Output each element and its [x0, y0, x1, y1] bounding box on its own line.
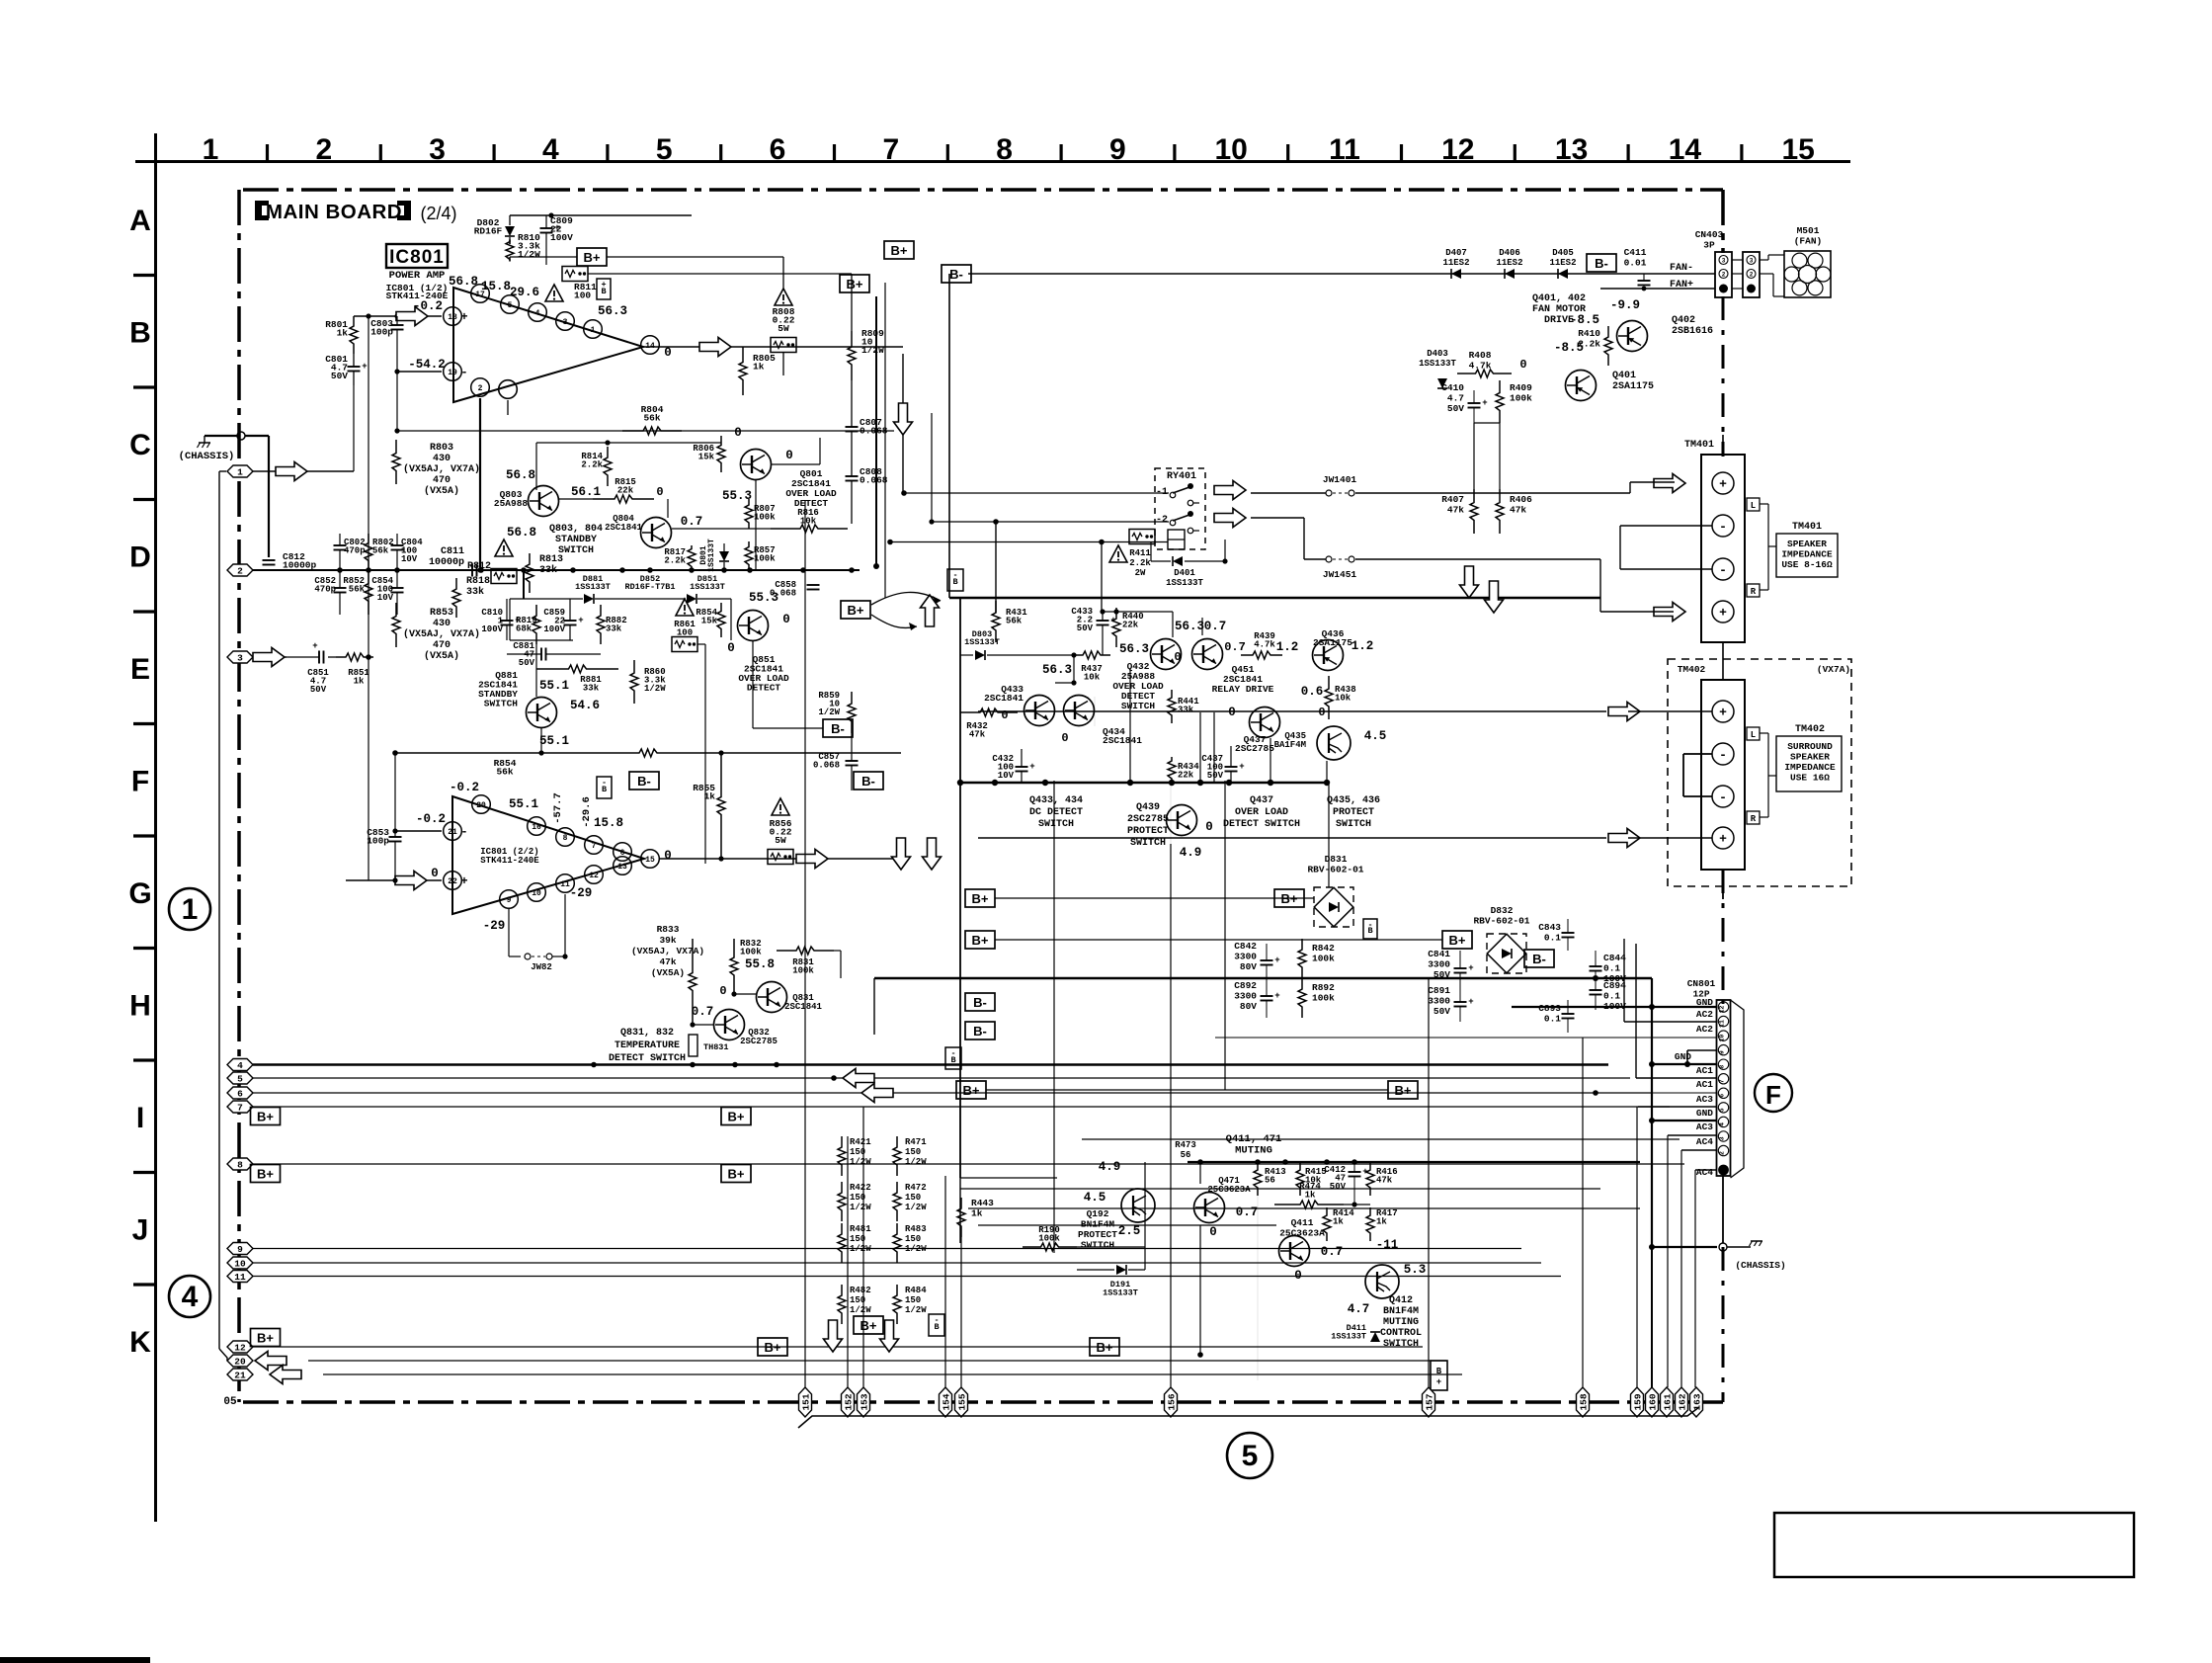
- svg-text:1/2W: 1/2W: [644, 684, 666, 694]
- circled 4: [169, 1276, 210, 1317]
- svg-text:8: 8: [563, 834, 568, 843]
- svg-text:AC4: AC4: [1696, 1167, 1713, 1178]
- relay out arrows: [1214, 481, 1246, 500]
- top ruler line: [135, 160, 1850, 163]
- svg-text:33k: 33k: [606, 624, 622, 634]
- R411 warn: [1109, 545, 1127, 562]
- svg-text:154: 154: [941, 1393, 951, 1410]
- svg-text:C842: C842: [1234, 941, 1257, 952]
- svg-text:PROTECT: PROTECT: [1127, 826, 1169, 837]
- svg-text:-: -: [1719, 563, 1727, 578]
- svg-text:0: 0: [656, 485, 663, 499]
- svg-text:2: 2: [1722, 272, 1726, 279]
- heavy bus row H: [874, 977, 1652, 980]
- wire to pin 21: [395, 830, 442, 832]
- svg-text:151: 151: [800, 1393, 811, 1410]
- svg-text:5W: 5W: [778, 323, 789, 334]
- svg-text:SWITCH: SWITCH: [1130, 838, 1166, 849]
- svg-text:1/2W: 1/2W: [518, 249, 540, 260]
- svg-text:Q412: Q412: [1389, 1295, 1413, 1306]
- svg-text:DETECT: DETECT: [747, 683, 781, 694]
- svg-text:+: +: [1274, 991, 1279, 1001]
- svg-text:22k: 22k: [617, 486, 634, 496]
- R440: [1115, 608, 1117, 617]
- wires TM401 minus: [1620, 525, 1712, 527]
- svg-text:IMPEDANCE: IMPEDANCE: [1781, 549, 1833, 560]
- svg-text:33k: 33k: [1178, 706, 1194, 715]
- svg-text:-: -: [934, 1315, 939, 1325]
- svg-text:J: J: [132, 1214, 149, 1247]
- svg-text:SWITCH: SWITCH: [558, 545, 594, 556]
- svg-text:6: 6: [770, 133, 786, 166]
- svg-text:POWER AMP: POWER AMP: [389, 270, 446, 282]
- svg-text:1k: 1k: [1305, 1191, 1316, 1201]
- svg-text:47k: 47k: [1510, 505, 1526, 516]
- svg-text:OVER LOAD: OVER LOAD: [1235, 807, 1288, 818]
- svg-text:15.8: 15.8: [481, 280, 511, 293]
- svg-text:2.2k: 2.2k: [664, 556, 686, 566]
- R818 R854: [455, 578, 457, 587]
- svg-text:159: 159: [1632, 1393, 1643, 1410]
- svg-text:CONTROL: CONTROL: [1380, 1328, 1422, 1339]
- svg-text:+: +: [601, 280, 606, 290]
- svg-text:80V: 80V: [1240, 961, 1257, 972]
- svg-text:56k: 56k: [349, 585, 366, 595]
- svg-text:Q401, 402: Q401, 402: [1532, 293, 1586, 304]
- R409: [1499, 380, 1501, 391]
- svg-text:+: +: [1468, 963, 1473, 973]
- svg-text:C894: C894: [1603, 980, 1626, 991]
- svg-text:25C3623A: 25C3623A: [1279, 1228, 1325, 1239]
- protect block outline: [949, 597, 1600, 599]
- svg-text:TM402: TM402: [1795, 724, 1825, 735]
- svg-text:0.1: 0.1: [1544, 933, 1561, 944]
- svg-text:R481: R481: [850, 1224, 871, 1234]
- svg-text:1SS133T: 1SS133T: [1419, 359, 1456, 369]
- svg-text:M501: M501: [1797, 225, 1820, 236]
- wires TM402: [978, 710, 1606, 712]
- svg-text:0.7: 0.7: [1236, 1206, 1259, 1219]
- svg-text:55.3: 55.3: [749, 591, 778, 605]
- svg-text:-: -: [602, 778, 607, 788]
- svg-text:157: 157: [1424, 1393, 1434, 1410]
- svg-text:3300: 3300: [1428, 996, 1450, 1007]
- svg-text:15k: 15k: [701, 617, 718, 626]
- svg-text:4: 4: [182, 1281, 199, 1313]
- R410: [1607, 326, 1609, 335]
- svg-text:D405: D405: [1552, 248, 1574, 258]
- relay contacts: [1170, 492, 1176, 498]
- resistor ladder: [841, 1136, 843, 1145]
- amp2 out wire: [660, 858, 903, 860]
- svg-text:R842: R842: [1312, 943, 1335, 954]
- main board border top: [243, 188, 1723, 192]
- svg-text:3: 3: [237, 652, 243, 663]
- dots on GND line: [591, 1062, 597, 1068]
- border right vertical col14 segments: [1721, 190, 1725, 253]
- svg-text:50V: 50V: [1330, 1182, 1347, 1192]
- circled 5: [1227, 1433, 1272, 1478]
- svg-text:0: 0: [1318, 706, 1325, 719]
- svg-text:CN801: CN801: [1687, 978, 1716, 989]
- svg-text:55.1: 55.1: [539, 679, 569, 693]
- svg-text:1: 1: [237, 466, 243, 477]
- B+ rail line: [510, 256, 577, 258]
- svg-text:TM402: TM402: [1678, 664, 1706, 675]
- svg-text:0: 0: [727, 641, 735, 655]
- svg-text:RBV-602-01: RBV-602-01: [1473, 916, 1529, 927]
- svg-text:+: +: [1719, 606, 1727, 621]
- rotated B-: [945, 1047, 961, 1069]
- svg-text:Q437: Q437: [1250, 795, 1273, 806]
- svg-text:1: 1: [591, 326, 596, 335]
- svg-text:JW82: JW82: [531, 962, 552, 972]
- svg-text:4.9: 4.9: [1180, 846, 1202, 860]
- Q433 Q434: [1024, 696, 1055, 726]
- svg-text:-29: -29: [483, 919, 506, 933]
- svg-text:0.01: 0.01: [1624, 258, 1647, 269]
- feedback wire: [396, 372, 398, 431]
- svg-text:SURROUND: SURROUND: [1787, 741, 1833, 752]
- svg-text:D407: D407: [1445, 248, 1467, 258]
- svg-text:470: 470: [433, 475, 451, 486]
- svg-text:RD16F-T7B1: RD16F-T7B1: [624, 582, 675, 592]
- svg-text:DETECT SWITCH: DETECT SWITCH: [609, 1053, 686, 1064]
- amp1 out to relay verticals: [902, 354, 904, 493]
- capacitor C811: [471, 564, 473, 577]
- svg-text:7: 7: [882, 133, 899, 166]
- transistor Q851: [738, 611, 769, 641]
- svg-text:Q435, 436: Q435, 436: [1327, 795, 1380, 806]
- svg-text:11ES2: 11ES2: [1442, 258, 1469, 268]
- transistor Q801: [741, 450, 772, 480]
- svg-text:9: 9: [1719, 1050, 1726, 1054]
- TM401 stem: [1722, 435, 1724, 455]
- svg-text:TM401: TM401: [1792, 522, 1822, 533]
- svg-text:11ES2: 11ES2: [1496, 258, 1522, 268]
- svg-text:RY401: RY401: [1167, 471, 1196, 482]
- svg-text:0.7: 0.7: [681, 515, 703, 529]
- svg-text:USE 8-16Ω: USE 8-16Ω: [1781, 559, 1833, 570]
- svg-text:47k: 47k: [1376, 1176, 1393, 1186]
- transistor Q451: [1192, 639, 1223, 670]
- svg-text:1: 1: [182, 893, 199, 926]
- svg-text:25A988: 25A988: [494, 498, 529, 509]
- page bottom-left black bar: [0, 1657, 150, 1663]
- C857: [846, 760, 859, 762]
- svg-text:2SC1841: 2SC1841: [984, 693, 1024, 704]
- JW connect: [1251, 492, 1326, 494]
- svg-text:50V: 50V: [1077, 624, 1094, 633]
- svg-text:2SC1841: 2SC1841: [1103, 735, 1142, 746]
- svg-text:2W: 2W: [1135, 568, 1146, 578]
- svg-text:0: 0: [1001, 708, 1008, 722]
- B- boxes mid: [629, 772, 659, 790]
- svg-text:5: 5: [1719, 1108, 1726, 1112]
- R881: [536, 668, 567, 670]
- svg-text:0.1: 0.1: [1544, 1014, 1561, 1025]
- fan wires left: [1643, 288, 1645, 291]
- caps row upper C802 R802 C804: [334, 544, 347, 546]
- svg-text:56k: 56k: [496, 767, 513, 778]
- svg-text:SWITCH: SWITCH: [1336, 819, 1371, 830]
- svg-text:0.068: 0.068: [813, 761, 840, 771]
- svg-text:MUTING: MUTING: [1383, 1317, 1419, 1328]
- svg-text:C: C: [129, 429, 151, 461]
- svg-text:SPEAKER: SPEAKER: [1790, 752, 1830, 763]
- svg-text:-: -: [1719, 748, 1727, 763]
- svg-text:10V: 10V: [998, 771, 1015, 781]
- B+ mid row I: [721, 1108, 751, 1125]
- svg-text:D832: D832: [1491, 905, 1514, 916]
- svg-text:100p: 100p: [370, 327, 393, 338]
- resistor R801: [353, 316, 355, 324]
- svg-text:20: 20: [234, 1356, 246, 1367]
- svg-text:15: 15: [645, 856, 655, 865]
- svg-text:9: 9: [1109, 133, 1126, 166]
- R437: [1073, 654, 1081, 656]
- svg-text:R892: R892: [1312, 982, 1335, 993]
- svg-text:0.6: 0.6: [1301, 685, 1324, 699]
- svg-text:56k: 56k: [1006, 617, 1023, 626]
- wire pin19: [397, 371, 442, 373]
- svg-text:2SB1616: 2SB1616: [1672, 326, 1713, 337]
- svg-text:BN1F4M: BN1F4M: [1081, 1219, 1115, 1230]
- svg-text:4.7: 4.7: [1447, 393, 1464, 404]
- resistor R805: [742, 347, 744, 361]
- TM402 minus link: [1683, 753, 1712, 755]
- svg-text:0: 0: [1228, 706, 1236, 719]
- svg-text:3P: 3P: [1703, 240, 1715, 251]
- svg-text:(CHASSIS): (CHASSIS): [1735, 1260, 1785, 1271]
- svg-text:+: +: [554, 223, 559, 233]
- relay feed lines: [1629, 482, 1631, 493]
- svg-text:-: -: [950, 1048, 955, 1058]
- F circle: [1755, 1074, 1792, 1112]
- verticals from bottom pins: [804, 500, 806, 1387]
- svg-text:56k: 56k: [372, 546, 389, 556]
- svg-text:USE 16Ω: USE 16Ω: [1790, 773, 1830, 784]
- Q412: [1365, 1265, 1399, 1298]
- R413 R415 C412 R416 R474: [1257, 1162, 1259, 1168]
- svg-text:4.7k: 4.7k: [1254, 640, 1275, 650]
- relay RY401 dashed box: [1155, 468, 1205, 549]
- svg-text:10k: 10k: [1084, 673, 1101, 683]
- R809: [851, 331, 853, 345]
- svg-text:R812: R812: [467, 561, 491, 572]
- svg-text:GND: GND: [1696, 1108, 1713, 1119]
- svg-text:+: +: [460, 310, 467, 324]
- svg-text:R406: R406: [1510, 494, 1532, 505]
- svg-text:150: 150: [905, 1147, 921, 1157]
- svg-text:R443: R443: [971, 1198, 994, 1208]
- svg-text:E: E: [130, 653, 150, 686]
- svg-text:12: 12: [1441, 133, 1474, 166]
- svg-text:+: +: [1239, 762, 1244, 772]
- svg-text:IMPEDANCE: IMPEDANCE: [1784, 762, 1836, 773]
- bus verticals: [873, 978, 875, 1035]
- chassis ground left: [198, 443, 211, 448]
- svg-text:10V: 10V: [401, 554, 418, 564]
- svg-text:100k: 100k: [740, 948, 762, 957]
- svg-text:1SS133T: 1SS133T: [1166, 578, 1203, 588]
- diode D401: [1173, 556, 1183, 566]
- svg-text:R471: R471: [905, 1137, 927, 1147]
- svg-text:TEMPERATURE: TEMPERATURE: [614, 1040, 680, 1051]
- up arrow: [921, 595, 940, 626]
- svg-text:C892: C892: [1234, 980, 1257, 991]
- svg-text:47k: 47k: [659, 956, 676, 967]
- svg-text:Q803, 804: Q803, 804: [549, 524, 603, 535]
- wire input to pin 18: [354, 315, 442, 317]
- svg-text:430: 430: [433, 619, 451, 629]
- svg-text:0.7: 0.7: [692, 1005, 714, 1019]
- svg-text:SWITCH: SWITCH: [1383, 1339, 1419, 1350]
- base links: [1055, 682, 1074, 684]
- svg-text:8: 8: [996, 133, 1013, 166]
- svg-text:10: 10: [1215, 133, 1248, 166]
- svg-text:(VX5AJ, VX7A): (VX5AJ, VX7A): [403, 628, 480, 640]
- svg-text:STK411-240E: STK411-240E: [480, 856, 539, 866]
- pin2 drop: [479, 398, 481, 570]
- svg-text:C410: C410: [1441, 382, 1464, 393]
- svg-text:0: 0: [719, 984, 726, 998]
- top node wire: [510, 214, 692, 216]
- svg-text:2.5: 2.5: [1118, 1224, 1141, 1238]
- arrows mid left: [843, 1069, 874, 1088]
- svg-text:0: 0: [1209, 1225, 1217, 1239]
- svg-text:1/2W: 1/2W: [818, 707, 840, 717]
- svg-text:R: R: [1751, 587, 1757, 597]
- D191: [1116, 1265, 1126, 1275]
- svg-text:10k: 10k: [1335, 694, 1352, 704]
- svg-text:(2/4): (2/4): [420, 204, 456, 223]
- svg-text:55.1: 55.1: [509, 797, 538, 811]
- svg-text:50V: 50V: [1447, 403, 1464, 414]
- svg-text:-0.2: -0.2: [416, 812, 446, 826]
- svg-text:9: 9: [237, 1244, 243, 1255]
- transistor Q402: [1617, 321, 1648, 352]
- svg-text:Q192: Q192: [1087, 1208, 1109, 1219]
- svg-text:4.7k: 4.7k: [1469, 361, 1492, 372]
- svg-text:11: 11: [1719, 1020, 1726, 1028]
- svg-text:R833: R833: [657, 924, 680, 935]
- connector TM402: [1701, 680, 1745, 870]
- svg-text:1k: 1k: [1333, 1217, 1344, 1227]
- R861 warn: [676, 599, 694, 616]
- svg-text:BN1F4M: BN1F4M: [1383, 1306, 1419, 1317]
- svg-text:1/2W: 1/2W: [905, 1203, 927, 1212]
- svg-text:21: 21: [234, 1370, 246, 1380]
- R808 warn cluster: [775, 289, 792, 305]
- svg-text:1/2W: 1/2W: [850, 1157, 871, 1167]
- transistor Q804: [641, 518, 672, 548]
- svg-text:33k: 33k: [539, 564, 557, 576]
- R854b: [720, 603, 722, 610]
- B- mid boxes: [965, 993, 995, 1011]
- R813: [529, 553, 531, 562]
- R806 R807 R857: [720, 436, 722, 444]
- R439: [1241, 654, 1251, 656]
- B- rail box: [948, 274, 950, 598]
- op-amp U1 triangle IC801 (1/2): [453, 288, 643, 402]
- svg-text:54.6: 54.6: [570, 699, 600, 712]
- svg-text:3300: 3300: [1234, 952, 1257, 962]
- svg-text:1/2W: 1/2W: [905, 1157, 927, 1167]
- svg-text:F: F: [131, 766, 149, 798]
- svg-text:3: 3: [563, 318, 568, 327]
- svg-text:JW1401: JW1401: [1323, 474, 1357, 485]
- svg-text:4.9: 4.9: [1099, 1160, 1121, 1174]
- svg-text:55.3: 55.3: [722, 489, 752, 503]
- svg-text:33k: 33k: [466, 586, 484, 598]
- svg-text:2SA1175: 2SA1175: [1313, 637, 1352, 648]
- svg-text:L: L: [1751, 730, 1756, 740]
- svg-text:C844: C844: [1603, 953, 1626, 963]
- svg-text:FAN-: FAN-: [1670, 263, 1693, 274]
- svg-text:56.3: 56.3: [1119, 642, 1149, 656]
- svg-text:21: 21: [448, 828, 457, 837]
- svg-text:4: 4: [237, 1060, 243, 1071]
- svg-text:4: 4: [1719, 1123, 1726, 1126]
- 5-bus line: [798, 1407, 1699, 1428]
- B+: [1431, 1361, 1447, 1390]
- svg-text:-: -: [952, 570, 957, 580]
- svg-text:15: 15: [1782, 133, 1815, 166]
- sideways B- near box: [947, 569, 963, 591]
- svg-text:R472: R472: [905, 1183, 927, 1193]
- chassis right: [1652, 1246, 1717, 1248]
- svg-text:158: 158: [1578, 1393, 1589, 1410]
- svg-text:-2: -2: [1156, 515, 1168, 526]
- svg-text:56: 56: [1181, 1150, 1191, 1160]
- svg-text:I: I: [136, 1102, 144, 1134]
- R860: [633, 660, 635, 671]
- svg-text:1/2W: 1/2W: [850, 1203, 871, 1212]
- down arrows G row: [892, 838, 911, 870]
- svg-text:-: -: [1719, 520, 1727, 535]
- svg-text:0: 0: [1174, 650, 1181, 664]
- svg-text:MAIN BOARD: MAIN BOARD: [266, 201, 402, 223]
- svg-text:5: 5: [237, 1073, 243, 1084]
- svg-text:150: 150: [905, 1193, 921, 1203]
- svg-text:C843: C843: [1538, 922, 1561, 933]
- svg-text:11: 11: [234, 1272, 246, 1283]
- svg-text:155: 155: [956, 1393, 967, 1410]
- CN801 bracket: [1731, 1000, 1745, 1178]
- svg-text:+: +: [578, 616, 583, 625]
- svg-text:4.7: 4.7: [1348, 1302, 1370, 1316]
- svg-text:(VX7A): (VX7A): [1817, 664, 1850, 675]
- svg-text:B: B: [129, 317, 151, 350]
- svg-text:56: 56: [1265, 1176, 1275, 1186]
- boxed resistor R811: [562, 267, 588, 282]
- svg-text:1SS133T: 1SS133T: [1103, 1289, 1138, 1298]
- svg-text:0: 0: [431, 867, 439, 880]
- svg-text:0.7: 0.7: [1204, 620, 1227, 633]
- svg-text:+: +: [1719, 832, 1727, 847]
- capacitor C853: [389, 836, 402, 838]
- svg-text:AC1: AC1: [1696, 1079, 1713, 1090]
- svg-text:0.068: 0.068: [860, 475, 888, 486]
- svg-text:-: -: [460, 366, 467, 379]
- svg-text:4.5: 4.5: [1364, 729, 1387, 743]
- svg-text:-57.7: -57.7: [552, 792, 564, 824]
- svg-text:+: +: [1719, 477, 1727, 492]
- transistor Q881: [527, 698, 557, 728]
- svg-text:22k: 22k: [1122, 621, 1139, 630]
- svg-text:4: 4: [542, 133, 559, 166]
